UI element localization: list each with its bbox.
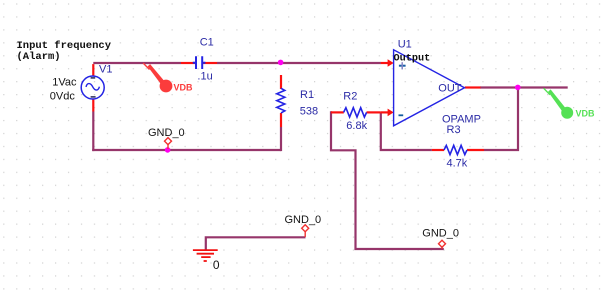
pin C1 left [181,62,195,64]
pin R1 top [280,75,282,89]
junction node at GND stub [165,147,171,153]
opamp minus mark [399,114,404,116]
svg-text:0Vdc: 0Vdc [50,90,76,102]
svg-text:4.7k: 4.7k [447,157,468,169]
pin R3 right [467,149,484,151]
ground port GND_0 left [165,138,172,145]
pin R3 left [432,149,444,151]
svg-text:R3: R3 [447,124,461,136]
capacitor C1 [196,56,202,69]
wire R2 left branch to ground net [331,111,444,249]
svg-text:6.8k: 6.8k [346,120,367,132]
op-amp U1 [394,50,465,126]
pin R2 right [367,111,381,113]
svg-text:VDB: VDB [174,82,194,92]
pin V1 bottom [92,99,94,112]
svg-text:538: 538 [300,105,318,117]
pin V1 top [92,64,94,76]
svg-text:OPAMP: OPAMP [442,114,481,126]
wire feedback from R3 to output [484,89,518,150]
svg-text:.1u: .1u [197,70,212,82]
svg-text:GND_0: GND_0 [148,127,185,139]
pin R2 left [331,111,344,113]
pin opamp minus input with arrow [381,111,389,113]
wire V1 bottom [92,112,94,152]
junction node at output [515,85,521,91]
svg-text:C1: C1 [200,36,214,48]
ground port GND_0 right [439,240,446,247]
svg-text:0: 0 [213,258,220,272]
ground symbol 0 [193,249,218,251]
svg-text:R1: R1 [300,89,314,101]
wire top from V1 to C1 [93,62,181,64]
wire from C1 to opamp + input [217,62,381,64]
svg-text:V1: V1 [99,63,112,75]
wire ground 0 net [206,237,306,250]
svg-text:(Alarm): (Alarm) [17,51,61,63]
pin opamp output [465,86,481,88]
svg-text:GND_0: GND_0 [285,214,322,226]
wire opamp output [480,86,568,88]
resistor R1 [277,88,285,113]
pin C1 right [203,62,217,64]
pin R1 bottom [280,113,282,127]
wire feedback branch from - input down [381,112,432,150]
svg-text:1Vac: 1Vac [52,76,77,88]
probe VDB red [143,63,149,69]
wire bottom loop to R1 [92,149,281,151]
svg-text:Output: Output [394,54,431,65]
svg-text:U1: U1 [398,38,412,50]
pin opamp plus input with arrow [381,62,389,64]
junction node at C1/R1 [278,60,284,66]
probe VDB green [544,88,550,95]
svg-text:VDB: VDB [576,109,596,119]
resistor R3 [444,145,467,154]
svg-text:GND_0: GND_0 [422,227,459,239]
svg-text:OUT: OUT [438,83,462,95]
resistor R2 [344,108,367,117]
opamp plus mark [399,65,406,67]
voltage source V1 [81,76,104,99]
ground port GND_0 middle [302,225,309,232]
wire R1 bottom [280,127,282,151]
svg-text:R2: R2 [343,91,357,103]
